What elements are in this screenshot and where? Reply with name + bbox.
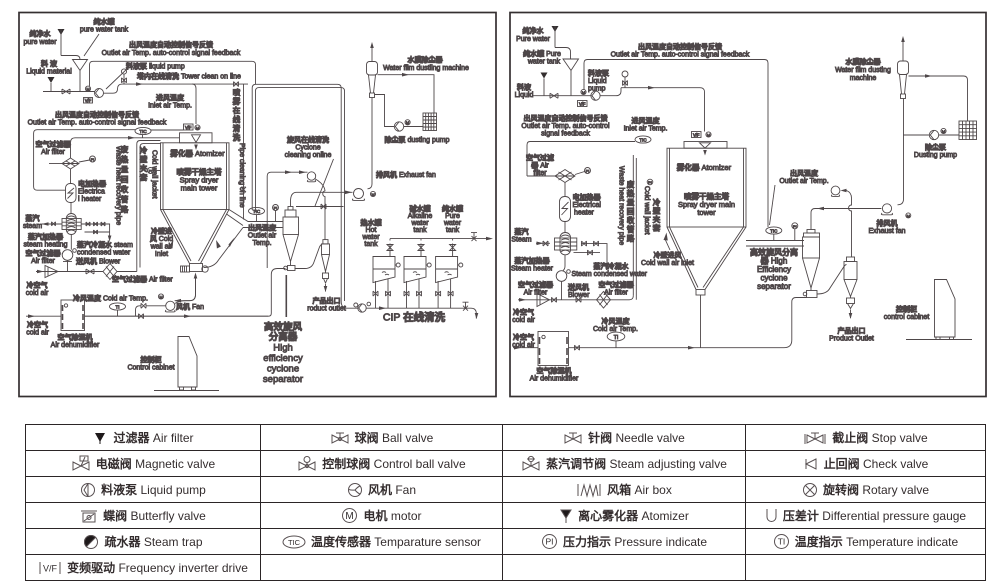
svg-text:water: water (410, 220, 429, 227)
svg-text:Outlet air Temp. auto-control: Outlet air Temp. auto-control (521, 123, 610, 130)
svg-text:cold air: cold air (26, 330, 49, 337)
svg-text:夹: 夹 (653, 214, 661, 224)
PI on tower (148, 168, 154, 174)
svg-text:Steam: Steam (511, 237, 531, 244)
TIC outlet (249, 207, 265, 214)
svg-text:器 Air: 器 Air (530, 161, 549, 170)
svg-text:分离器: 分离器 (269, 331, 298, 343)
svg-text:空气除湿机: 空气除湿机 (537, 366, 572, 375)
svg-text:Outlet air Temp. auto-control: Outlet air Temp. auto-control signal fee… (611, 52, 750, 59)
dusting pump (903, 134, 929, 136)
tank labels (361, 204, 464, 248)
svg-text:料 液: 料 液 (41, 59, 58, 68)
exhaust fan (882, 204, 891, 213)
svg-text:出风温度: 出风温度 (790, 169, 819, 178)
svg-text:main tower: main tower (181, 184, 218, 193)
svg-text:蒸汽冷凝水: 蒸汽冷凝水 (594, 262, 630, 271)
bottom air line (518, 296, 633, 300)
svg-text:产品出口: 产品出口 (838, 326, 866, 335)
svg-text:出风温度自动控制信号反馈: 出风温度自动控制信号反馈 (638, 42, 722, 51)
svg-text:管: 管 (121, 194, 129, 204)
svg-text:Inlet air Temp.: Inlet air Temp. (624, 126, 668, 133)
svg-text:PI: PI (149, 169, 153, 174)
cyclone 2 (847, 257, 855, 262)
water film dusting machine (371, 44, 373, 62)
outlet duct (227, 210, 283, 228)
svg-text:空气过滤器: 空气过滤器 (26, 249, 62, 258)
svg-text:空气过滤器: 空气过滤器 (36, 140, 72, 149)
svg-text:蒸汽冷凝水 steam: 蒸汽冷凝水 steam (77, 240, 133, 249)
svg-text:路: 路 (121, 204, 129, 214)
valve on CIP (463, 302, 469, 311)
svg-text:Control cabinet: Control cabinet (127, 365, 174, 372)
steam heater coil (70, 203, 72, 214)
svg-text:pure water tank: pure water tank (80, 27, 129, 34)
booster fan (831, 186, 840, 195)
liquid pump (95, 89, 104, 98)
svg-text:Liquid material: Liquid material (26, 69, 72, 76)
svg-text:雾化器 Atomizer: 雾化器 Atomizer (169, 148, 225, 158)
svg-text:碱水罐: 碱水罐 (410, 204, 431, 213)
blower down pipe (67, 260, 69, 271)
svg-text:pump: pump (588, 86, 606, 93)
TIC sensor (34, 130, 135, 191)
leader (315, 159, 334, 206)
waste heat pipes (137, 141, 161, 272)
svg-text:PI: PI (793, 224, 797, 229)
svg-text:纯净水: 纯净水 (30, 29, 52, 38)
svg-text:Outlet air Temp.: Outlet air Temp. (779, 178, 828, 185)
water film machine (902, 38, 904, 61)
tank header pipe (390, 238, 490, 240)
svg-text:tower: tower (697, 208, 716, 217)
dust box (423, 113, 437, 131)
svg-text:送风机 Blower: 送风机 Blower (75, 257, 121, 266)
svg-text:Cyclone: Cyclone (295, 145, 320, 152)
svg-text:套: 套 (140, 172, 148, 182)
svg-text:送风机: 送风机 (567, 283, 589, 292)
svg-text:蒸汽: 蒸汽 (26, 214, 40, 223)
svg-text:在: 在 (233, 105, 241, 115)
feedback loop pipe (90, 61, 256, 86)
vertical label cold wall jacket (140, 145, 148, 182)
collector to bottom line (85, 269, 286, 317)
svg-text:Exhaust fan: Exhaust fan (869, 228, 906, 235)
cone filter (537, 294, 550, 307)
svg-text:Air filter: Air filter (524, 290, 548, 297)
svg-text:M: M (406, 120, 409, 125)
dust collector pipe (378, 75, 435, 113)
svg-text:Liquid: Liquid (515, 92, 534, 99)
svg-text:M: M (346, 511, 354, 522)
svg-text:量: 量 (121, 164, 129, 174)
valve on header (234, 82, 239, 87)
svg-text:蒸汽加热器: 蒸汽加热器 (515, 256, 551, 265)
svg-text:Outlet air Temp. auto-control: Outlet air Temp. auto-control signal fee… (102, 50, 241, 57)
legend table (25, 424, 986, 581)
sensor on riser (121, 69, 126, 74)
svg-text:tank: tank (364, 241, 378, 248)
svg-text:电加热器: 电加热器 (573, 193, 602, 202)
TIC4 (766, 227, 782, 234)
outlet long line (569, 298, 807, 348)
svg-text:High: High (273, 343, 293, 354)
svg-text:PI: PI (545, 537, 553, 547)
air filter liquid (541, 73, 548, 79)
svg-text:M: M (86, 87, 89, 92)
svg-text:控制柜: 控制柜 (896, 305, 917, 314)
svg-text:V/F: V/F (43, 563, 58, 573)
fan outlet to cyclone2 riser with hop (315, 179, 325, 240)
svg-text:Electrica: Electrica (78, 189, 105, 196)
svg-text:排风机 Exhaust fan: 排风机 Exhaust fan (376, 170, 436, 179)
svg-text:M: M (582, 90, 585, 95)
svg-text:cold air: cold air (26, 290, 49, 297)
svg-text:Pipe cleaning on line: Pipe cleaning on line (238, 143, 245, 208)
atomizer funnel (700, 143, 711, 148)
svg-text:收: 收 (627, 215, 635, 225)
svg-text:CIP 在线清洗: CIP 在线清洗 (383, 311, 446, 324)
TI sensor (110, 303, 126, 310)
svg-text:回: 回 (121, 175, 129, 184)
svg-text:冷空气: 冷空气 (513, 333, 534, 342)
svg-text:Liquid: Liquid (588, 78, 607, 85)
product line to fan (175, 277, 196, 301)
svg-text:Cold air Temp.: Cold air Temp. (593, 326, 638, 333)
svg-text:pure water: pure water (23, 39, 57, 46)
air filter pure water (552, 26, 559, 32)
svg-text:TI: TI (778, 537, 786, 547)
svg-text:纯水罐: 纯水罐 (442, 204, 463, 213)
svg-text:Air filter: Air filter (41, 149, 65, 156)
svg-text:废: 废 (627, 179, 635, 189)
svg-text:热: 热 (627, 188, 635, 198)
svg-text:Water film dustling machine: Water film dustling machine (383, 65, 469, 72)
cone arrow (664, 233, 668, 241)
electrical heater (70, 169, 72, 184)
diamond filter (597, 292, 611, 309)
svg-text:TIC: TIC (253, 209, 261, 214)
svg-text:tank: tank (446, 227, 460, 234)
svg-text:空气过滤器: 空气过滤器 (599, 280, 635, 289)
svg-text:蒸汽: 蒸汽 (515, 227, 529, 236)
sensor on riser (622, 71, 628, 77)
dehumidifier outlet line (85, 315, 269, 317)
svg-text:TIC: TIC (288, 538, 301, 547)
duct to cyclone (746, 241, 804, 247)
svg-text:M: M (196, 125, 199, 130)
svg-text:condensed water: condensed water (77, 250, 131, 257)
exhaust fan (354, 189, 364, 199)
svg-text:Electrical: Electrical (573, 202, 602, 209)
cone slope arrows (169, 240, 174, 249)
svg-text:V/F: V/F (185, 125, 192, 130)
svg-text:冷风温度: 冷风温度 (602, 317, 631, 326)
feedback loop (584, 60, 768, 228)
svg-text:Cold wall jacket: Cold wall jacket (643, 186, 650, 235)
pump discharge to tower-clean header (104, 84, 249, 93)
svg-text:PI: PI (648, 180, 652, 185)
pipe to dust box (909, 76, 968, 121)
svg-text:高效旋风分离: 高效旋风分离 (750, 247, 798, 257)
svg-text:排风机: 排风机 (877, 219, 898, 228)
fan outlet to cyclone2 with hop (847, 191, 852, 258)
atomizer (192, 135, 201, 143)
svg-text:filter: filter (533, 170, 547, 177)
support post (285, 275, 287, 317)
wire (61, 29, 80, 60)
product pump (354, 303, 358, 307)
svg-text:Steam heater: Steam heater (511, 266, 554, 273)
VF atomizer (184, 124, 194, 130)
svg-text:PI: PI (274, 206, 278, 211)
collector to cyclone2 (295, 244, 323, 269)
fan (166, 301, 175, 310)
svg-text:Inlet: Inlet (155, 251, 168, 258)
svg-text:PI: PI (91, 157, 95, 162)
svg-text:TI: TI (614, 335, 618, 341)
svg-text:雾: 雾 (232, 96, 241, 106)
svg-text:蒸汽加热器: 蒸汽加热器 (28, 232, 64, 241)
svg-text:Pure: Pure (445, 213, 460, 220)
svg-text:冷空气: 冷空气 (27, 320, 48, 329)
svg-text:Air filter: Air filter (31, 258, 55, 265)
svg-text:TIC: TIC (139, 129, 147, 134)
svg-text:water: water (443, 220, 462, 227)
svg-text:Air filter: Air filter (604, 290, 628, 297)
svg-text:cyclone: cyclone (267, 364, 299, 375)
svg-text:Inlet air Temp.: Inlet air Temp. (148, 103, 192, 110)
svg-text:TIC: TIC (770, 229, 778, 234)
air filter (liquid) (48, 77, 55, 83)
svg-text:进风温度: 进风温度 (156, 93, 185, 102)
cyclone 1 (807, 230, 815, 234)
svg-text:空气除湿机: 空气除湿机 (58, 333, 93, 342)
svg-text:冷: 冷 (140, 145, 148, 155)
svg-text:管: 管 (627, 224, 635, 234)
cyclone 1 (288, 207, 293, 211)
svg-text:TIC: TIC (639, 138, 647, 143)
svg-text:M: M (942, 129, 945, 134)
svg-text:出风温度自动控制信号反馈: 出风温度自动控制信号反馈 (129, 40, 213, 49)
svg-text:Air dehumidifier: Air dehumidifier (51, 342, 100, 349)
svg-text:纯水罐 Pure: 纯水罐 Pure (523, 49, 561, 58)
collector to cyclone2 (817, 265, 847, 295)
svg-text:料液: 料液 (517, 83, 532, 92)
svg-text:V/F: V/F (579, 101, 586, 106)
diamond filter (103, 264, 117, 280)
svg-text:雾化器 Atomizer: 雾化器 Atomizer (676, 162, 732, 172)
svg-text:产品出口: 产品出口 (313, 296, 341, 305)
tower cone (667, 227, 746, 290)
motor M (85, 86, 90, 91)
svg-text:heater: heater (574, 210, 595, 217)
svg-text:冷空气: 冷空气 (27, 281, 48, 290)
pure water tank funnel (563, 59, 579, 96)
air filter symbol (62, 158, 79, 169)
svg-text:Pure water: Pure water (516, 36, 551, 43)
svg-text:machine: machine (850, 75, 877, 82)
steam coil (564, 222, 566, 233)
steam feed (42, 223, 63, 225)
tower top plate (684, 142, 727, 149)
svg-text:cleaning online: cleaning online (285, 152, 332, 159)
svg-text:喷: 喷 (233, 87, 241, 97)
svg-text:除尘泵 dusting pump: 除尘泵 dusting pump (385, 135, 450, 144)
svg-text:Waste heat recovery pipe: Waste heat recovery pipe (618, 166, 625, 245)
svg-text:Cold wall air inlet: Cold wall air inlet (641, 260, 694, 267)
spray tower (667, 148, 746, 227)
svg-text:壁: 壁 (140, 154, 148, 164)
svg-text:l heater: l heater (78, 196, 102, 203)
svg-text:efficiency: efficiency (263, 353, 303, 364)
steam feed (536, 242, 550, 244)
svg-text:Outlet air: Outlet air (248, 233, 277, 240)
liquid feed pipe (43, 91, 95, 93)
svg-text:V/F: V/F (85, 98, 92, 103)
svg-text:Cold wall jacket: Cold wall jacket (151, 150, 158, 199)
svg-text:线: 线 (233, 114, 241, 124)
svg-text:热水罐: 热水罐 (361, 218, 382, 227)
svg-text:冷壁进风: 冷壁进风 (654, 251, 682, 260)
cyclone clean supply line (267, 172, 307, 268)
svg-text:进风温度: 进风温度 (632, 116, 661, 125)
condensate lines (81, 224, 109, 238)
TI sensor (607, 332, 625, 341)
svg-text:signal feedback: signal feedback (541, 131, 590, 138)
svg-text:Air dehumidifier: Air dehumidifier (530, 376, 579, 383)
svg-text:Dusting pump: Dusting pump (914, 152, 957, 159)
cyclone 2 (323, 240, 328, 244)
control cabinet (935, 280, 956, 338)
svg-text:水膜除尘器: 水膜除尘器 (846, 57, 882, 66)
svg-text:热: 热 (121, 154, 129, 164)
svg-text:纯水罐: 纯水罐 (94, 17, 115, 26)
svg-text:separator: separator (263, 374, 303, 385)
air filter (pure water inlet) (58, 29, 65, 35)
svg-text:洗: 洗 (233, 132, 241, 142)
svg-text:料液泵: 料液泵 (588, 69, 609, 78)
booster fan (307, 172, 315, 180)
svg-text:water tank: water tank (527, 59, 561, 66)
svg-text:冷: 冷 (653, 197, 661, 207)
blower (563, 255, 565, 271)
tower outlet pipe from cone (700, 295, 702, 348)
svg-text:料液泵 liquid pump: 料液泵 liquid pump (126, 62, 185, 71)
svg-text:回: 回 (627, 207, 635, 216)
dehumidifier (538, 332, 569, 366)
spray tower (161, 143, 230, 210)
svg-text:Product Outlet: Product Outlet (829, 336, 874, 343)
leader (84, 34, 99, 56)
svg-text:cold air: cold air (512, 317, 535, 324)
svg-text:除尘泵: 除尘泵 (925, 143, 946, 152)
svg-text:M: M (371, 192, 374, 197)
waste heat pipes (633, 155, 636, 300)
svg-text:壁: 壁 (653, 206, 661, 216)
svg-text:Water film dusting: Water film dusting (835, 67, 891, 74)
svg-text:路: 路 (627, 233, 635, 243)
liquid pipe (533, 95, 591, 97)
PI gauge (90, 156, 96, 162)
svg-text:M: M (707, 132, 710, 137)
tower top plate (180, 133, 213, 143)
svg-text:Steam condensed water: Steam condensed water (572, 271, 648, 278)
dehumidifier (61, 300, 85, 331)
svg-text:Hot: Hot (366, 227, 377, 234)
control cabinet (178, 337, 197, 388)
blower (70, 235, 72, 250)
PI outlet (273, 205, 279, 211)
VF drive (84, 98, 93, 104)
svg-text:冷空气: 冷空气 (513, 308, 534, 317)
svg-text:水膜除尘器: 水膜除尘器 (408, 55, 444, 64)
tower cone (161, 210, 230, 264)
svg-text:纯净水: 纯净水 (523, 26, 545, 35)
svg-text:separator: separator (757, 282, 791, 291)
VF atomizer (692, 132, 702, 138)
cap duct line (296, 206, 344, 208)
svg-text:空气过滤: 空气过滤 (526, 153, 554, 162)
svg-text:control cabinet: control cabinet (884, 314, 930, 321)
water tanks (373, 239, 400, 309)
svg-text:wall air: wall air (150, 244, 173, 251)
svg-text:V/F: V/F (693, 132, 700, 137)
exhaust fan inlet from cyclone (291, 192, 353, 206)
valve (86, 269, 94, 274)
cone outlet assembly (190, 264, 203, 272)
condensate (574, 244, 608, 267)
heater (564, 183, 566, 197)
svg-text:夹: 夹 (140, 163, 148, 173)
svg-text:steam heating: steam heating (24, 242, 68, 249)
svg-text:PI: PI (586, 169, 590, 174)
svg-text:steam: steam (23, 223, 42, 230)
valve (62, 89, 70, 94)
svg-text:TI: TI (116, 305, 120, 310)
svg-text:风 Cold: 风 Cold (150, 234, 173, 243)
pipe cleaning drop (243, 84, 245, 219)
discharge to atomizer (600, 88, 704, 132)
pipe clean vertical text (232, 87, 241, 142)
cold air inlet line (36, 271, 103, 273)
svg-text:roduct outlet: roduct outlet (307, 306, 346, 313)
svg-text:套: 套 (653, 223, 661, 233)
leader to pump (106, 68, 128, 89)
svg-text:M: M (159, 294, 162, 299)
svg-text:塔内在线清洗 Tower clean on line: 塔内在线清洗 Tower clean on line (137, 72, 241, 81)
svg-text:water: water (361, 234, 380, 241)
CIP loop double pipe (252, 84, 341, 301)
svg-text:M: M (907, 213, 910, 218)
svg-text:Temp.: Temp. (252, 240, 271, 247)
svg-text:Alkaline: Alkaline (408, 213, 433, 220)
svg-text:冷壁进: 冷壁进 (151, 227, 172, 236)
svg-text:清: 清 (233, 123, 241, 133)
svg-text:电加热器: 电加热器 (78, 179, 107, 188)
high efficiency cyclone label (263, 321, 303, 385)
CIP line (366, 308, 476, 318)
hot air duct to tower top (71, 138, 180, 158)
air filter symbol (555, 170, 575, 183)
svg-text:出风温度: 出风温度 (248, 223, 277, 232)
riser to exhaust fan (811, 209, 881, 230)
dusting pump (375, 95, 395, 127)
svg-text:控制柜: 控制柜 (141, 355, 162, 364)
svg-text:量: 量 (627, 197, 635, 207)
TIC (635, 136, 651, 143)
pump (581, 89, 586, 94)
